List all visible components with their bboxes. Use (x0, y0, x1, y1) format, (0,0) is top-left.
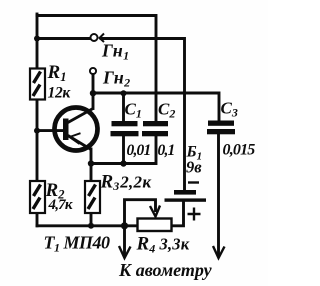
wire Gn2 stem (92, 74, 95, 93)
junction node Gn2 rail3 (90, 90, 96, 96)
wire emitter node horizontal to C2 bottom (91, 137, 156, 164)
resistor R1 hatch (33, 72, 41, 97)
battery B1 positive plate (165, 198, 207, 201)
svg-text:9в: 9в (186, 158, 202, 177)
transistor T1 circle (55, 108, 98, 151)
wire battery plus to R4 right (172, 202, 184, 226)
junction node at rail2 left (34, 36, 40, 42)
battery minus sign (188, 181, 199, 183)
potentiometer R4 wiper arrowhead (150, 206, 160, 217)
wire collector stub (92, 93, 95, 109)
svg-text:0,01: 0,01 (127, 142, 151, 159)
resistor R1 body (30, 69, 45, 100)
wire top rail to C2 (37, 16, 156, 121)
wire rail3 to C3 (93, 93, 219, 121)
svg-text:R32,2к: R32,2к (100, 172, 152, 194)
resistor R3 body (85, 181, 100, 213)
svg-text:12к: 12к (48, 85, 72, 102)
transistor T1 collector line (67, 109, 93, 124)
capacitor C2 plates (142, 121, 168, 136)
resistor R3 hatch (88, 185, 96, 210)
wire output right arrow shaft (C3 bottom) (217, 135, 220, 256)
jack Gn1 chevron (100, 34, 105, 43)
capacitor C3 plates (207, 121, 235, 135)
transistor T1 emitter arrowhead (70, 133, 81, 144)
junction node R3 bottom (88, 223, 94, 229)
svg-text:К авометру: К авометру (118, 260, 213, 280)
wire C1 top stub (122, 93, 125, 121)
battery B1 negative plate (174, 190, 196, 195)
svg-text:0,015: 0,015 (223, 142, 256, 159)
resistor R2 body (30, 181, 45, 213)
svg-text:4,7к: 4,7к (48, 197, 73, 213)
battery plus sign (188, 208, 201, 221)
capacitor C1 plates (111, 121, 139, 136)
potentiometer R4 body (138, 219, 172, 232)
wire rail2 right segment to battery (101, 39, 185, 191)
arrowhead output right (213, 246, 225, 258)
wire left column top (36, 14, 39, 69)
wire R1 to base node to R2 (36, 100, 39, 182)
wire base lead (37, 129, 63, 132)
svg-text:0,1: 0,1 (158, 142, 175, 159)
jack Gn2 ring (90, 68, 96, 74)
svg-text:Т1 МП40: Т1 МП40 (44, 233, 111, 255)
wire output left arrow shaft (123, 226, 126, 256)
junction node emitter (88, 160, 94, 166)
junction node R4 left (121, 222, 128, 229)
arrowhead output left (119, 246, 131, 258)
wire rail2 left segment (37, 37, 89, 40)
wire R4 wiper link (125, 200, 156, 224)
jack Gn1 ring (91, 34, 98, 41)
wire R3 bottom stub (90, 213, 93, 226)
junction node base (34, 128, 40, 134)
resistor R2 hatch (33, 185, 41, 210)
junction node C1 bottom (120, 160, 126, 166)
svg-text:R4 3,3к: R4 3,3к (136, 234, 190, 256)
wire R2 bottom to bottom rail (36, 213, 39, 226)
wire R3 top stub (90, 164, 93, 182)
transistor T1 base bar (63, 119, 69, 141)
transistor T1 emitter line (68, 136, 91, 150)
wire emitter stub (90, 149, 93, 164)
wire C1 bottom stub (122, 137, 125, 164)
wire bottom rail (37, 224, 138, 227)
junction node C1 top (121, 90, 127, 96)
